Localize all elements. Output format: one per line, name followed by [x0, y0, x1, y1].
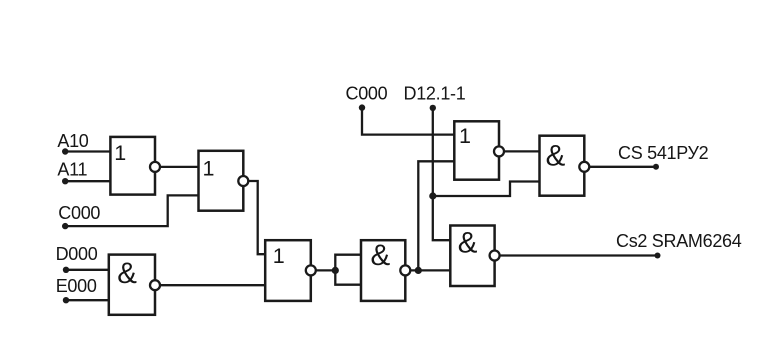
- gate U6 (&, output CS): [540, 136, 590, 196]
- svg-text:CS 541РУ2: CS 541РУ2: [618, 143, 709, 163]
- wire gate2 output down to gate3 input: [248, 181, 265, 254]
- svg-text:&: &: [117, 257, 137, 290]
- svg-text:C000: C000: [58, 203, 100, 223]
- gate U4 (&, middle): [361, 239, 410, 301]
- terminal Cs2 output: [655, 253, 661, 259]
- junction node gate4 output: [415, 267, 422, 274]
- wire gate4 output to gate7 lower input: [410, 269, 450, 271]
- svg-text:E000: E000: [56, 276, 97, 296]
- junction node gate3 output: [332, 267, 339, 274]
- terminal A10: [62, 148, 68, 154]
- terminal A11: [62, 178, 68, 184]
- wire gate7 output to Cs2 terminal: [500, 254, 658, 256]
- svg-text:D12.1-1: D12.1-1: [404, 83, 466, 103]
- wire D12.1-1 vertical down to gate7 upper input: [433, 108, 451, 240]
- svg-text:A11: A11: [57, 159, 87, 179]
- svg-text:A10: A10: [57, 131, 88, 151]
- wire C000 top input to gate5 upper input: [362, 108, 454, 135]
- gate U2 (1, second stage): [199, 151, 249, 211]
- wire D000 input: [65, 269, 109, 271]
- wire junction split to gate4 both inputs: [335, 255, 361, 285]
- terminal CS output: [653, 164, 659, 170]
- junction node D12.1-1 branch: [429, 192, 436, 199]
- wire gate5 output to gate6 upper input: [503, 150, 539, 152]
- gate U5 (1, top right): [454, 121, 504, 179]
- terminal E000: [63, 297, 69, 303]
- svg-text:1: 1: [114, 141, 126, 165]
- wire branch from D12.1-1 junction to gate6 lower input: [433, 182, 540, 197]
- svg-text:1: 1: [203, 157, 215, 181]
- terminal C000 left: [62, 223, 68, 229]
- svg-text:&: &: [458, 226, 478, 259]
- terminal D000: [63, 267, 69, 273]
- wire C000 left input (steps up into gate 2): [65, 195, 199, 226]
- gate U7 (&, output Cs2): [450, 226, 499, 287]
- gate U8 (&, inputs D000/E000): [109, 255, 160, 315]
- wire E000 input: [65, 299, 109, 301]
- svg-text:D000: D000: [56, 244, 98, 264]
- svg-text:Cs2 SRAM6264: Cs2 SRAM6264: [616, 231, 742, 251]
- wire gate1 output to gate2 input: [160, 166, 198, 168]
- terminal D12.1-1: [430, 105, 436, 111]
- wire feedback up from gate4 output junction to gate5 lower input: [418, 161, 454, 270]
- svg-text:1: 1: [273, 244, 285, 268]
- gate U1 (1, inputs A10/A11): [110, 137, 160, 195]
- wire gate8 output to gate3 lower input: [160, 284, 265, 286]
- svg-text:1: 1: [459, 124, 471, 148]
- wire A11 input: [65, 180, 110, 182]
- wire gate3 output to junction: [316, 269, 336, 271]
- gate U3 (1, middle): [265, 240, 316, 301]
- wire A10 input: [65, 150, 110, 152]
- svg-text:&: &: [371, 239, 391, 272]
- svg-text:C000: C000: [346, 83, 388, 103]
- wire gate6 output to CS terminal: [590, 166, 657, 168]
- terminal C000 top: [359, 104, 365, 110]
- svg-text:&: &: [546, 139, 566, 172]
